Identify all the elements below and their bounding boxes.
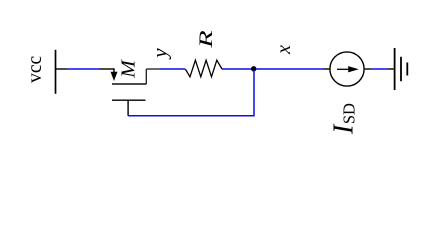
- wire drain to resistor (black stub): [146, 68, 159, 70]
- wire current source pin left (black): [323, 68, 329, 70]
- gate feedback wire horizontal (blue): [128, 115, 254, 117]
- wire current source to ground (black stub): [365, 68, 371, 70]
- wire vcc to transistor source (black stub): [56, 68, 67, 70]
- wire source pin (black): [99, 68, 114, 70]
- current source circle: [330, 52, 364, 86]
- vcc supply bar: [55, 50, 57, 94]
- gate feedback wire vertical (blue): [253, 70, 255, 117]
- wire ground pin (black): [388, 68, 395, 70]
- transistor M channel line: [112, 83, 146, 85]
- wire drain to resistor (blue): [160, 68, 186, 70]
- svg-text:x: x: [273, 45, 295, 55]
- current source arrow: [337, 66, 359, 72]
- wire resistor to node (blue): [222, 68, 252, 70]
- svg-text:y: y: [147, 48, 171, 60]
- ground bar 1: [394, 48, 396, 90]
- transistor M gate bar: [112, 99, 146, 101]
- wire node to current source (blue): [256, 68, 323, 70]
- wire current source to ground (blue): [371, 68, 388, 70]
- junction dot: [251, 66, 256, 71]
- transistor M source arrow: [111, 68, 118, 81]
- wire vcc to transistor source (blue): [67, 68, 99, 70]
- svg-text:ISD: ISD: [328, 103, 359, 135]
- svg-text:M: M: [118, 58, 139, 78]
- svg-text:vcc: vcc: [25, 55, 46, 82]
- ground bar 2: [400, 57, 402, 81]
- transistor M drain vertical: [145, 69, 147, 84]
- ground bar 3: [406, 63, 408, 76]
- resistor R zigzag: [185, 60, 222, 77]
- svg-text:R: R: [196, 30, 217, 49]
- transistor M gate stem: [127, 100, 129, 116]
